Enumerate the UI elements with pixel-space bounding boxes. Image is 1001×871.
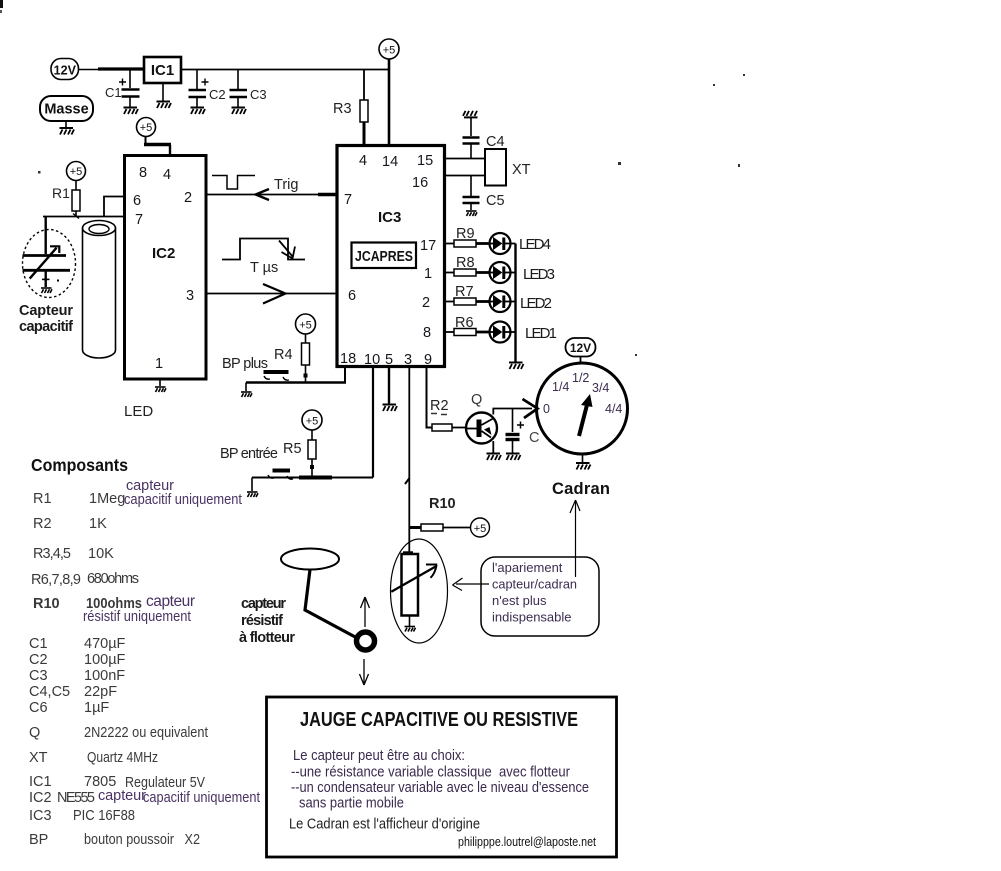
dial Cadran: [537, 363, 628, 462]
scan specks: [38, 74, 745, 356]
ground under BP plus: [241, 392, 252, 397]
svg-text:3: 3: [186, 288, 194, 304]
svg-text:3: 3: [404, 352, 412, 368]
ground under IC2 pin1: [155, 387, 166, 392]
transistor Q: [466, 392, 497, 453]
ground above C4: [463, 111, 478, 118]
svg-text:capteur: capteur: [98, 788, 146, 804]
wire Q collector to dial with arrow: [493, 399, 538, 418]
svg-text:IC1: IC1: [29, 774, 52, 790]
wire node R1 / IC2 pins 6,7: [43, 197, 125, 219]
svg-text:0: 0: [543, 402, 550, 416]
svg-text:capteur: capteur: [146, 593, 195, 610]
capacitor C4: [463, 117, 505, 159]
svg-text:6: 6: [133, 193, 141, 209]
components list purple notes: [83, 478, 260, 806]
svg-text:Quartz 4MHz: Quartz 4MHz: [87, 750, 158, 766]
svg-text:4: 4: [163, 167, 171, 183]
wire IC3 pin16 to quartz: [445, 175, 485, 177]
svg-text:R10: R10: [429, 496, 456, 512]
svg-text:680ohms: 680ohms: [87, 571, 139, 587]
svg-text:Composants: Composants: [31, 455, 128, 475]
svg-text:100µF: 100µF: [84, 652, 126, 668]
svg-text:R2: R2: [430, 398, 449, 414]
svg-text:C2: C2: [29, 652, 48, 668]
svg-text:capacitif uniquement: capacitif uniquement: [143, 790, 260, 806]
ground under capteur capacitif: [41, 288, 52, 293]
svg-text:16: 16: [412, 175, 428, 191]
push button BP plus: [246, 372, 289, 391]
svg-text:+5: +5: [140, 122, 153, 134]
node +5 above R5: [302, 410, 322, 430]
svg-text:10: 10: [364, 352, 380, 368]
svg-text:R7: R7: [455, 284, 474, 300]
svg-text:résistif: résistif: [241, 613, 283, 629]
node +5 above IC2: [137, 118, 156, 137]
svg-text:résistif uniquement: résistif uniquement: [83, 609, 191, 625]
svg-text:5: 5: [385, 352, 393, 368]
resistor R8: [445, 255, 490, 276]
svg-text:NE555: NE555: [57, 790, 95, 806]
svg-text:Q: Q: [471, 392, 482, 408]
svg-text:Le capteur peut être au choix:: Le capteur peut être au choix:: [293, 747, 465, 764]
svg-text:indispensable: indispensable: [492, 610, 572, 625]
resistor R6: [445, 315, 490, 336]
svg-text:3/4: 3/4: [592, 381, 609, 395]
resistive sensor ellipse outline: [391, 539, 448, 643]
components list body: [29, 491, 208, 848]
node +5 right of R10: [471, 518, 490, 537]
resistor R4: [274, 334, 310, 382]
svg-text:--une résistance variable clas: --une résistance variable classique avec…: [291, 764, 570, 781]
ground under IC3 pin5: [383, 405, 398, 412]
svg-text:C5: C5: [486, 193, 505, 209]
svg-text:BP entrée: BP entrée: [220, 446, 278, 462]
wire IC3 pin9 to R2: [427, 367, 433, 428]
svg-text:à flotteur: à flotteur: [239, 630, 295, 646]
svg-text:n'est plus: n'est plus: [492, 593, 547, 608]
svg-text:7: 7: [344, 192, 352, 208]
capacitor C1: [105, 70, 140, 108]
ground under C: [506, 454, 521, 461]
junction wire pin3 and R10: [409, 526, 421, 529]
wire +5 to IC2 pins 8 and 4: [144, 137, 171, 157]
svg-text:R1: R1: [52, 185, 70, 201]
wire IC3 pin18 to BP plus: [246, 367, 346, 383]
svg-text:LED2: LED2: [520, 295, 552, 312]
wire IC3 pin3 long down: [405, 367, 410, 554]
svg-text:sans partie mobile: sans partie mobile: [299, 795, 404, 812]
note box arrow to sensor: [453, 578, 490, 591]
push button BP entree: [252, 471, 293, 492]
svg-text:IC3: IC3: [29, 808, 52, 824]
regulator IC1: [144, 57, 181, 83]
capacitor C: [506, 409, 540, 454]
svg-text:capteur: capteur: [241, 596, 286, 612]
wire Trig IC3 pin7 to IC2 pin2: [206, 189, 338, 200]
label Capteur capacitif: [19, 303, 73, 335]
svg-text:100nF: 100nF: [84, 668, 125, 684]
svg-text:14: 14: [382, 154, 398, 170]
quartz XT: [485, 149, 531, 186]
svg-text:2: 2: [184, 190, 192, 206]
svg-text:R9: R9: [456, 226, 475, 242]
svg-text:C4: C4: [486, 134, 505, 150]
Masse terminal: [40, 96, 93, 128]
svg-text:1Meg: 1Meg: [89, 491, 125, 507]
12V terminal above dial: [566, 338, 596, 364]
svg-text:12V: 12V: [54, 64, 77, 78]
svg-text:C3: C3: [250, 87, 267, 102]
node +5 above R4: [296, 314, 316, 334]
LED4: [490, 233, 552, 254]
svg-text:philipppe.loutrel@laposte.net: philipppe.loutrel@laposte.net: [458, 834, 596, 849]
resistor R9: [445, 226, 490, 247]
svg-text:R8: R8: [456, 255, 475, 271]
svg-text:6: 6: [348, 288, 356, 304]
trig negative pulse icon: [212, 176, 255, 190]
wire IC2 pin1 to ground: [159, 379, 161, 386]
JAUGE info box: [267, 697, 617, 857]
ground under C3: [232, 108, 247, 115]
svg-text:+5: +5: [383, 45, 396, 57]
IC2 NE555 body: [125, 156, 207, 380]
ground under dial: [576, 463, 591, 470]
wire IC1 ground pin: [162, 83, 164, 101]
wire IC3 pin15 to quartz: [445, 158, 485, 160]
svg-text:1/4: 1/4: [552, 380, 569, 394]
svg-text:8: 8: [139, 165, 147, 181]
probe cylinder: [83, 221, 116, 359]
svg-text:Le Cadran est l'afficheur d'or: Le Cadran est l'afficheur d'origine: [289, 816, 480, 833]
svg-text:7: 7: [135, 212, 143, 228]
resistive sensor variable resistor: [391, 552, 437, 626]
svg-text:JAUGE CAPACITIVE OU RESISTIVE: JAUGE CAPACITIVE OU RESISTIVE: [300, 708, 578, 731]
svg-text:10K: 10K: [88, 546, 114, 562]
svg-text:+5: +5: [299, 320, 312, 332]
svg-text:1: 1: [424, 266, 432, 282]
svg-text:R3: R3: [333, 101, 352, 117]
svg-text:C2: C2: [209, 87, 226, 102]
svg-text:15: 15: [417, 153, 433, 169]
svg-text:2: 2: [422, 295, 430, 311]
svg-text:--un condensateur variable ave: --un condensateur variable avec le nivea…: [291, 779, 589, 796]
resistor R10: [421, 496, 470, 531]
resistor R5: [283, 430, 316, 477]
svg-text:JCAPRES: JCAPRES: [355, 249, 413, 265]
svg-text:470µF: 470µF: [84, 636, 126, 652]
float sensor rod: [305, 570, 357, 639]
note box arrow to Cadran: [570, 500, 580, 577]
LED cathode bus wire: [514, 244, 516, 363]
svg-text:T µs: T µs: [250, 260, 278, 276]
wire IC3 pin5 to ground: [388, 367, 390, 404]
svg-text:Cadran: Cadran: [552, 480, 610, 498]
IC3 PIC16F88 body: [337, 146, 445, 367]
ground under C1: [124, 108, 139, 115]
resistor R1: [52, 181, 80, 217]
12V supply terminal: [51, 59, 79, 80]
scan artifact top-left corner: [0, 0, 3, 13]
label capteur resistif a flotteur: [239, 596, 295, 646]
LED1: [490, 322, 558, 343]
svg-text:LED1: LED1: [525, 325, 557, 342]
wire +5 down to IC3 pin14: [388, 59, 391, 146]
svg-text:LED4: LED4: [519, 236, 551, 253]
svg-text:4: 4: [359, 153, 367, 169]
svg-text:R6: R6: [455, 315, 474, 331]
float sensor down arrow: [360, 659, 369, 685]
svg-text:C3: C3: [29, 668, 48, 684]
node +5 top rail: [379, 39, 399, 59]
svg-text:capacitif uniquement: capacitif uniquement: [124, 492, 242, 508]
svg-text:R4: R4: [274, 347, 293, 363]
capacitor C5: [463, 176, 505, 211]
svg-text:XT: XT: [512, 162, 531, 178]
svg-text:BP: BP: [29, 832, 48, 848]
wire IC2 pin3 to IC3 pin6: [206, 284, 338, 304]
IC3 pin labels: [340, 153, 436, 368]
float sensor paddle: [281, 549, 339, 570]
float sensor pivot ring: [357, 632, 375, 650]
capteur capacitif variable capacitor: [23, 217, 71, 288]
svg-text:BP plus: BP plus: [222, 356, 268, 372]
svg-text:1/2: 1/2: [572, 371, 589, 385]
wire IC1 output rail to +5 column: [181, 69, 389, 71]
capacitor C3: [230, 70, 267, 108]
resistor R2: [430, 398, 467, 431]
ground under Q emitter: [487, 454, 502, 461]
note box: [481, 557, 599, 636]
wire 12V to IC1: [79, 68, 145, 71]
svg-text:IC3: IC3: [378, 209, 401, 226]
svg-text:C1: C1: [29, 636, 48, 652]
svg-text:capteur/cadran: capteur/cadran: [492, 577, 577, 592]
svg-text:IC2: IC2: [29, 790, 52, 806]
JCAPRES label box: [352, 243, 417, 269]
svg-text:Q: Q: [29, 725, 40, 741]
capteur capacitif ellipse outline: [23, 230, 76, 298]
svg-text:PIC 16F88: PIC 16F88: [73, 808, 135, 824]
svg-text:C6: C6: [29, 700, 48, 716]
svg-text:C4,C5: C4,C5: [29, 684, 70, 700]
svg-text:Trig: Trig: [274, 177, 298, 193]
svg-text:12V: 12V: [570, 341, 591, 355]
svg-text:+5: +5: [70, 166, 83, 178]
wire IC3 pin10 to BP entree: [252, 367, 373, 478]
svg-text:+5: +5: [306, 416, 319, 428]
resistor R7: [445, 284, 490, 305]
svg-text:18: 18: [340, 351, 356, 367]
svg-text:capacitif: capacitif: [19, 319, 73, 335]
ground under LED bus: [509, 363, 524, 370]
svg-text:Masse: Masse: [44, 102, 88, 118]
LED2: [490, 291, 553, 312]
svg-text:1: 1: [155, 356, 163, 372]
svg-text:1µF: 1µF: [84, 700, 109, 716]
svg-text:l'apariement: l'apariement: [492, 560, 563, 575]
ground under BP entree: [247, 492, 258, 497]
ground under IC1: [157, 102, 172, 109]
svg-text:R5: R5: [283, 441, 302, 457]
svg-text:LED3: LED3: [523, 266, 555, 283]
svg-text:IC1: IC1: [151, 62, 174, 79]
svg-text:LED: LED: [124, 403, 153, 420]
svg-text:8: 8: [423, 325, 431, 341]
svg-text:bouton poussoir X2: bouton poussoir X2: [84, 832, 200, 848]
ground under C5: [466, 211, 477, 216]
svg-text:C1: C1: [105, 85, 122, 100]
svg-text:22pF: 22pF: [84, 684, 117, 700]
svg-text:Capteur: Capteur: [19, 303, 73, 319]
svg-text:C: C: [529, 430, 539, 446]
svg-text:R3,4,5: R3,4,5: [33, 546, 71, 562]
IC2 pin labels: [133, 165, 194, 372]
ground under C2: [191, 108, 206, 115]
svg-text:R1: R1: [33, 491, 52, 507]
svg-text:IC2: IC2: [152, 245, 175, 262]
capacitor C2: [189, 70, 226, 108]
svg-text:4/4: 4/4: [605, 402, 622, 416]
float sensor up arrow: [361, 597, 370, 627]
resistor R3: [333, 70, 368, 147]
ground under Masse: [60, 128, 75, 135]
svg-text:1K: 1K: [89, 516, 107, 532]
LED3: [490, 262, 556, 283]
svg-text:+5: +5: [474, 523, 487, 535]
svg-text:17: 17: [420, 238, 436, 254]
svg-text:XT: XT: [29, 750, 48, 766]
node +5 above R1: [67, 162, 86, 181]
svg-text:9: 9: [424, 352, 432, 368]
ground under resistive sensor: [405, 627, 416, 632]
svg-text:R6,7,8,9: R6,7,8,9: [31, 572, 81, 588]
T µs positive pulse icon: [222, 239, 305, 260]
svg-text:R10: R10: [33, 596, 60, 612]
svg-text:2N2222 ou equivalent: 2N2222 ou equivalent: [84, 725, 208, 741]
svg-text:R2: R2: [33, 516, 52, 532]
